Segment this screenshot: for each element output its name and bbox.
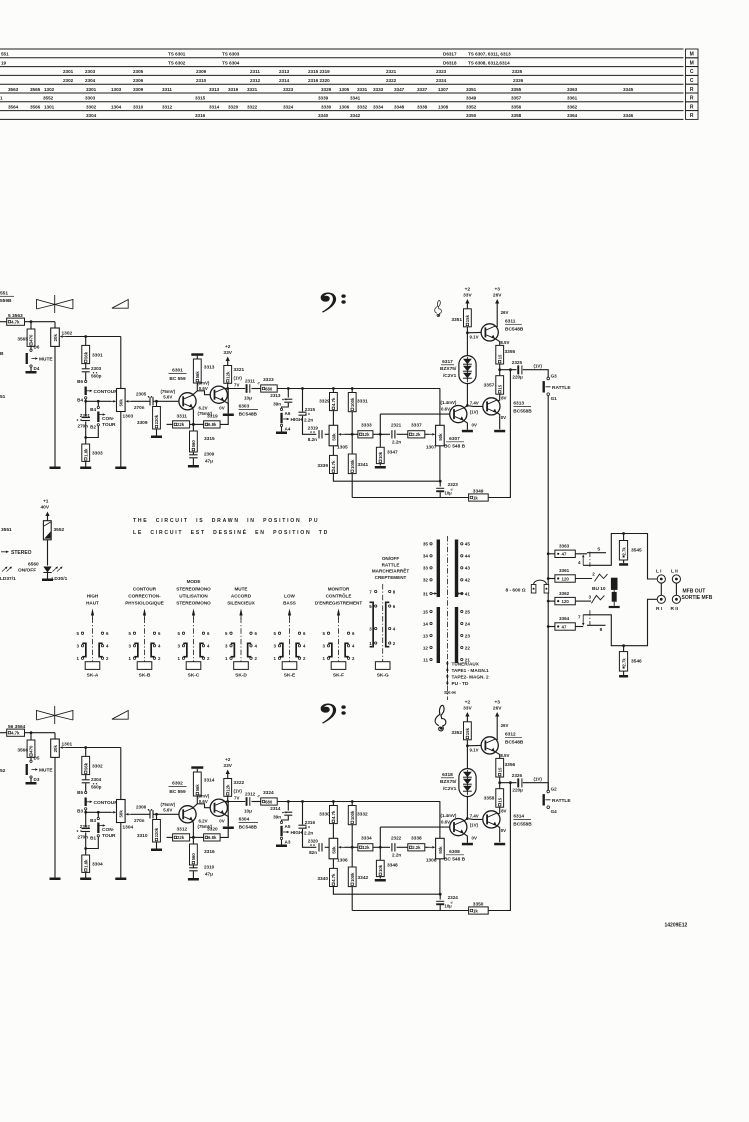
contacts SK-B [129,631,161,661]
node [498,368,501,371]
node [351,800,354,803]
wire [439,859,441,894]
svg-text:3303: 3303 [85,96,96,101]
wire [287,389,289,398]
wire [467,744,481,746]
wire [469,405,483,408]
resistor 3357 [496,376,504,395]
wire [30,778,32,782]
label SK-G [372,556,409,580]
resistor 3303 [82,444,90,461]
wire [333,887,440,895]
resistor 3339 [330,455,338,473]
svg-text:+3: +3 [494,700,500,706]
svg-text:4.7k: 4.7k [11,731,20,736]
svg-text:1306: 1306 [339,104,350,109]
node [155,813,158,816]
label 3358 [484,796,495,802]
wire [85,337,87,346]
svg-text:2312: 2312 [245,791,256,796]
svg-text:+1: +1 [43,499,49,505]
jack pin 8 [600,627,603,632]
connector SK-H right contacts [461,542,471,663]
wiper arrow [429,433,436,436]
svg-text:2: 2 [592,571,595,576]
switch box SK-E [282,662,297,670]
svg-text:47: 47 [562,552,567,557]
wire [224,401,229,413]
svg-text:BASS: BASS [283,601,296,606]
ground [26,782,37,785]
node [439,480,442,483]
node [84,335,87,338]
wire [86,837,99,849]
svg-text:3302: 3302 [86,104,97,109]
svg-text:3322: 3322 [234,780,245,786]
wire [575,626,583,628]
wire [25,732,56,734]
label 3312 [177,827,188,833]
arrow contact 31 [433,592,438,595]
svg-text:39n: 39n [273,402,281,407]
svg-text:MUTE: MUTE [39,357,53,363]
svg-text:3348: 3348 [394,104,405,109]
svg-text:14209E12: 14209E12 [665,923,688,929]
label 2305 [134,391,152,410]
capacitor 2306 [150,810,153,818]
label 3322 [234,780,245,801]
svg-text:3350: 3350 [466,113,477,118]
svg-text:0V: 0V [219,819,224,824]
svg-text:STEREO/MONO: STEREO/MONO [176,586,211,591]
wire [325,846,329,848]
svg-text:RATTLE: RATTLE [552,798,571,804]
svg-text:8.2n: 8.2n [308,437,317,442]
svg-text:10μ: 10μ [445,491,453,496]
wire [30,757,32,760]
svg-text:680: 680 [265,799,273,804]
svg-text:TOUR: TOUR [102,422,116,428]
svg-text:HAUT: HAUT [86,601,99,606]
svg-text:+3: +3 [494,287,500,293]
resistor 3364 [555,623,575,630]
svg-text:3323: 3323 [263,377,274,383]
svg-text:3357: 3357 [484,383,495,389]
svg-text:470: 470 [29,745,34,753]
label 3320 [207,827,218,833]
svg-text:(1.4mV): (1.4mV) [441,400,457,405]
svg-text:S: S [597,547,600,552]
svg-text:2322: 2322 [386,78,397,83]
svg-text:SK-E: SK-E [284,672,296,678]
label voltages [219,819,224,824]
contour switch [85,798,119,807]
label 3361 [559,568,570,573]
wire [332,824,334,839]
svg-text:35: 35 [423,542,429,547]
capacitor 2324 [436,895,458,909]
wire [495,752,500,759]
svg-text:3342: 3342 [350,113,361,118]
label 3357 [484,383,495,389]
wire [351,887,353,911]
svg-text:HIGH: HIGH [87,594,99,599]
label 2319 [308,426,319,442]
wire [220,802,228,838]
lamp 3552 [43,521,64,540]
wire [499,807,501,813]
wire [351,412,353,454]
label voltages [219,406,224,411]
svg-text:2.7k: 2.7k [622,658,627,667]
label 2301 [77,413,91,429]
svg-text:2326: 2326 [512,773,523,778]
label 6304 [239,817,258,831]
wire [303,829,317,847]
resistor 3340 [330,868,338,886]
label 3329 [319,399,330,405]
connector SK-H right bar [455,540,458,664]
label 3340 [317,876,328,882]
label 3323 [263,377,274,383]
label fragment [0,768,6,774]
capacitor 2301 [82,418,90,421]
svg-text:+2: +2 [465,700,471,706]
wire [622,532,625,540]
node [332,387,335,390]
label 2306 [134,804,152,823]
node [30,731,33,734]
label voltages [501,809,506,814]
wiper brackets SK-E [279,643,299,658]
zener 6317 [459,356,476,384]
svg-text:1307: 1307 [438,87,449,92]
ground [619,675,628,678]
contact G2 [547,787,557,793]
wiper arrow [60,746,66,749]
connector SK-H left contacts [423,542,432,663]
wire [156,842,158,849]
wire [224,814,229,826]
svg-text:(1V): (1V) [534,364,543,369]
svg-text:270n: 270n [134,818,145,823]
power rail [191,353,203,356]
label voltages [470,813,479,827]
label 2312 [244,791,260,813]
label 2320 [308,839,319,855]
label SK-A [86,594,99,606]
svg-text:3364: 3364 [559,616,570,621]
ground [188,465,199,468]
svg-text:+2: +2 [225,757,231,763]
label 2315 [304,407,315,422]
wire [622,644,625,651]
wire [85,812,87,827]
svg-text:6318: 6318 [442,772,453,778]
terminal L I [656,568,665,583]
svg-text:15: 15 [497,767,502,772]
potentiometer 1308 [436,838,445,859]
svg-text:D6: D6 [34,345,40,350]
label 1301 [62,742,73,748]
wire [85,833,87,849]
svg-text:25: 25 [465,609,471,614]
svg-text:2323: 2323 [448,482,459,487]
slider potentiometer icon [37,706,73,724]
svg-text:3330: 3330 [319,812,330,818]
svg-text:(1V): (1V) [234,789,243,794]
label voltages [470,334,479,339]
svg-text:1302: 1302 [44,87,55,92]
capacitor 2302 [82,829,90,832]
svg-text:0.6V: 0.6V [441,407,450,412]
svg-text:3346: 3346 [623,113,634,118]
label fragment [0,351,6,400]
svg-text:CONTOUR: CONTOUR [133,586,157,591]
svg-text:10μ: 10μ [445,904,453,909]
ground [115,878,126,881]
wire [47,540,49,566]
wire [120,748,122,800]
label voltages [501,723,509,728]
svg-text:6304: 6304 [239,817,250,823]
switch box SK-D [234,662,249,670]
ground [151,849,162,852]
wire [351,389,353,393]
node [84,746,87,749]
svg-text:TS 6301: TS 6301 [168,52,186,57]
wire [192,821,193,838]
svg-text:3347: 3347 [387,450,398,456]
svg-text:TS 6308, 6312,6314: TS 6308, 6312,6314 [468,60,510,65]
contacts SK-C [178,631,210,661]
svg-text:45: 45 [465,542,471,547]
svg-text:12k: 12k [225,371,230,379]
label 3313 [204,365,215,371]
wire [463,833,467,843]
svg-text:3349: 3349 [466,96,477,101]
svg-text:2309: 2309 [196,69,207,74]
svg-text:2322: 2322 [391,836,402,841]
wire [379,414,381,447]
label 3302 [92,764,103,770]
svg-text:6.8k: 6.8k [208,422,217,427]
supply +2 [463,700,472,722]
contact B1 [90,835,99,841]
wire [352,433,358,435]
wire [499,364,501,376]
wire [303,416,317,434]
power rail [191,766,203,769]
wire [466,740,468,769]
label 3563 [8,313,23,319]
svg-text:(1V): (1V) [470,822,479,827]
svg-text:26V: 26V [501,723,509,728]
svg-text:7: 7 [578,615,581,620]
svg-text:3564: 3564 [8,104,19,109]
node [97,400,100,403]
resistor 3322 [224,779,232,797]
svg-text:3320: 3320 [228,104,239,109]
wire [439,481,441,486]
svg-text:22k: 22k [177,835,185,840]
svg-text:12k: 12k [225,784,230,792]
svg-text:4.7k: 4.7k [11,320,20,325]
transistor 6302 [179,806,196,823]
svg-text:6303: 6303 [239,404,250,410]
svg-text:3337: 3337 [417,87,428,92]
resistor 3347 [376,447,384,463]
svg-text:2324: 2324 [448,895,459,900]
resistor 3312 [173,834,190,841]
svg-text:24: 24 [465,621,471,626]
wire [85,748,87,757]
svg-text:15: 15 [423,609,429,614]
wire [192,837,194,844]
label 3364 [559,616,570,621]
svg-text:4.7k: 4.7k [331,873,336,882]
label 2303 [91,366,102,379]
slider potentiometer icon [37,295,73,313]
wire [497,400,500,402]
switch box SK-G [375,662,390,670]
ground [462,843,473,846]
slider potentiometer icon [112,711,128,720]
svg-text:MODE: MODE [187,579,201,584]
svg-text:1301: 1301 [62,742,73,748]
svg-text:0.6V: 0.6V [199,799,208,804]
svg-text:56 3564: 56 3564 [8,724,26,730]
svg-text:3312: 3312 [177,827,188,833]
label 3337 [411,423,422,429]
svg-text:5 3563: 5 3563 [8,313,23,319]
svg-text:(1.4mV): (1.4mV) [441,813,457,818]
label 3332 [357,812,368,818]
svg-text:B4: B4 [77,398,83,403]
svg-text:82n: 82n [309,850,317,855]
svg-text:(8mV): (8mV) [197,381,210,386]
label 3350 [473,901,484,907]
svg-text:3315: 3315 [204,436,215,442]
resistor 3316 [190,844,198,865]
svg-text:8: 8 [600,627,603,632]
svg-text:6.2V: 6.2V [199,405,208,410]
wire [351,474,353,498]
svg-text:ACCORD: ACCORD [231,594,252,599]
svg-text:2306: 2306 [133,78,144,83]
svg-text:3316: 3316 [195,113,206,118]
label 6308 [444,849,466,863]
svg-text:3334: 3334 [373,104,384,109]
wire [439,802,441,839]
svg-text:50k: 50k [438,846,443,854]
wire [660,583,662,595]
label 3566 [17,748,28,754]
table row values [63,78,524,83]
wire [497,413,500,430]
svg-text:6560: 6560 [28,562,39,568]
svg-text:3364: 3364 [567,113,578,118]
svg-text:10μ: 10μ [244,809,252,814]
svg-text:2311: 2311 [250,69,260,74]
label 6317 [440,359,457,379]
node [287,800,290,803]
node [301,800,304,803]
svg-text:26V: 26V [493,293,502,299]
resistor 3363 [555,550,575,557]
svg-text:34: 34 [423,554,429,559]
resistor 3350 [469,907,489,914]
svg-text:R II: R II [671,606,679,612]
node [509,781,512,784]
svg-text:3310: 3310 [133,104,144,109]
terminal L II [671,568,681,583]
svg-text:10μ: 10μ [244,396,252,401]
label 2321 [391,423,402,445]
label MFB OUT [682,588,713,601]
switch stem SK-C [192,609,195,662]
wire [97,812,99,817]
svg-text:1303: 1303 [111,87,122,92]
label voltages [198,405,213,416]
capacitor 2326 [512,773,543,792]
wire [332,859,334,869]
transistor 6312 [481,737,498,754]
label SK-A [87,672,99,678]
resistor 3337 [408,431,425,438]
wire [85,872,87,877]
wiper brackets SK-G [370,602,390,648]
svg-text:MONITOR: MONITOR [328,586,350,591]
svg-text:3323: 3323 [283,87,294,92]
svg-text:3566: 3566 [30,104,41,109]
svg-text:3356: 3356 [511,104,522,109]
label 2322 [391,836,402,858]
label voltages [470,747,479,752]
svg-text:560p: 560p [91,374,102,379]
svg-text:1305: 1305 [339,87,350,92]
high switch [280,413,303,424]
label voltages [197,794,210,804]
svg-text:3321: 3321 [247,87,258,92]
svg-text:44: 44 [465,554,471,559]
svg-text:270n: 270n [78,424,89,429]
svg-text:R: R [690,96,694,102]
svg-text:A6: A6 [285,411,291,416]
label 3351 [451,317,462,323]
transistor 6313 [483,398,500,415]
wire [587,624,606,626]
svg-text:BC548B: BC548B [239,825,258,831]
node [84,847,87,850]
svg-text:MARCHE/ARRÊT: MARCHE/ARRÊT [372,567,409,574]
svg-text:RATTLE: RATTLE [552,385,571,391]
label 3331 [357,399,368,405]
node [498,781,501,784]
wire [54,322,56,328]
svg-text:15: 15 [497,354,502,359]
label voltages [470,400,479,414]
rattle switch [543,381,572,392]
jack contact 4 [578,552,590,567]
potentiometer 1301 [51,739,60,757]
svg-text:3310: 3310 [137,833,148,839]
wire [497,813,500,815]
svg-text:BC548B: BC548B [505,740,524,746]
transistor 6314 [483,811,500,828]
svg-text:D'ENREGISTREMENT: D'ENREGISTREMENT [315,601,362,606]
wire [167,836,173,838]
